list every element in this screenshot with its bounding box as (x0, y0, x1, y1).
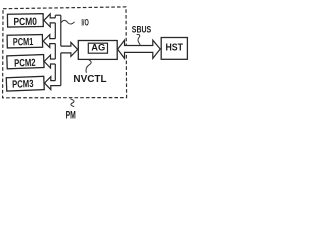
leader squiggle for I/O (61, 20, 74, 24)
svg-text:PCM0: PCM0 (13, 16, 37, 28)
branch arrow to PCM3 (bus bottom elbow) (45, 77, 61, 90)
dashed box PM (3, 7, 127, 98)
svg-text:PCM2: PCM2 (14, 57, 36, 70)
bus trunk top closure (55, 14, 61, 16)
svg-text:PCM1: PCM1 (13, 36, 34, 48)
leader squiggle for NVCTL (86, 60, 91, 73)
svg-text:AG: AG (91, 43, 105, 54)
block HST (161, 38, 187, 60)
branch arrow bus to AG (61, 42, 78, 56)
bus trunk left line segments (54, 15, 56, 80)
block AG outer (78, 41, 117, 60)
SBUS double arrow AG to HST (118, 40, 161, 58)
svg-text:PCM3: PCM3 (12, 78, 34, 91)
block PCM1 (7, 35, 43, 49)
bus trunk right line segments (60, 15, 62, 85)
svg-text:SBUS: SBUS (132, 24, 151, 34)
block PCM2 (7, 55, 44, 70)
svg-text:HST: HST (165, 42, 183, 53)
branch arrow to PCM0 (44, 14, 55, 27)
svg-text:PM: PM (66, 109, 76, 120)
block AG inner (88, 43, 107, 53)
block PCM3 (6, 76, 44, 91)
branch arrow to PCM2 (44, 55, 55, 68)
leader squiggle for SBUS (137, 34, 141, 44)
leader squiggle for PM (70, 99, 74, 107)
svg-text:NVCTL: NVCTL (73, 74, 106, 85)
block PCM0 (7, 14, 43, 29)
branch arrow to PCM1 (43, 35, 55, 48)
svg-text:I/O: I/O (81, 18, 88, 28)
